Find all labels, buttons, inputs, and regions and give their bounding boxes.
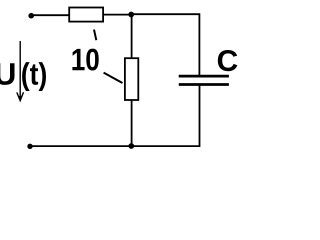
wire: middle vertical, node A to resistor R2 (131, 15, 133, 59)
leader line: from label 10 up to resistor R1 (94, 30, 96, 41)
wire: bottom rail, node B to source negative terminal (30, 145, 131, 147)
resistor R2, vertical box (125, 58, 138, 100)
wire: node A to top-right corner (131, 14, 199, 75)
node B: bottom junction dot (128, 143, 134, 149)
wire: capacitor C bottom to bottom rail (131, 86, 199, 147)
leader line: from label 10 down to resistor R2 (104, 73, 123, 83)
node A: top junction dot (128, 12, 134, 18)
wire: resistor R2 bottom to node B (131, 100, 133, 146)
source voltage arrow U(t): shaft (19, 41, 21, 100)
label 10: value of resistor R1 (72, 49, 98, 71)
node: source positive terminal dot (28, 13, 34, 19)
source voltage arrow U(t): arrowhead (17, 92, 24, 100)
wire: resistor R1 to node A (104, 14, 132, 16)
resistor R1 (value 10), horizontal box (69, 8, 103, 22)
wire: top-left terminal to resistor R1 (31, 14, 69, 16)
label C: capacitor designator (218, 50, 238, 71)
capacitor C: bottom plate (179, 83, 229, 86)
label U(t): source voltage (0, 63, 15, 85)
node: source negative terminal dot (27, 144, 32, 149)
capacitor C: top plate (179, 75, 229, 78)
